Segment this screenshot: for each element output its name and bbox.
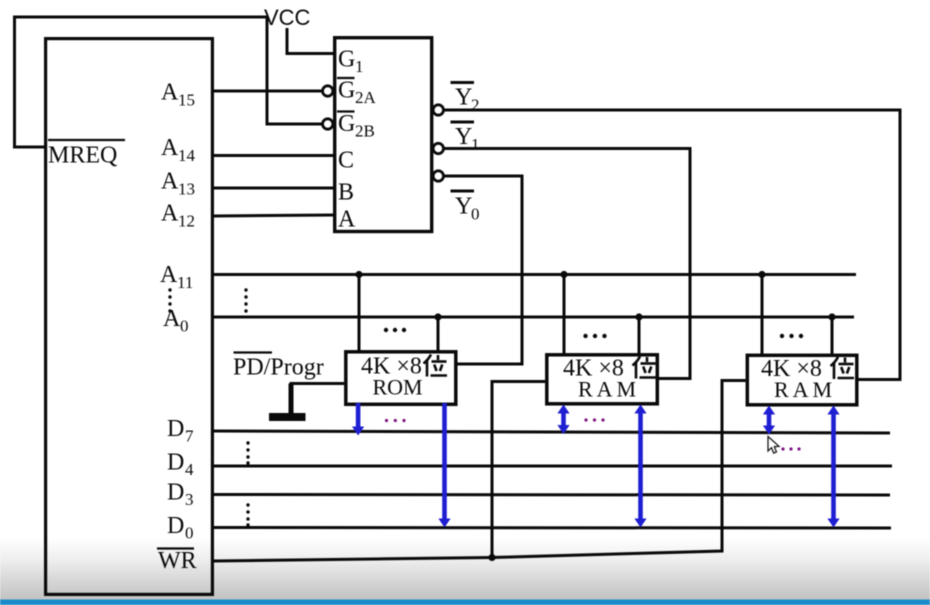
svg-text:1: 1 bbox=[355, 57, 364, 76]
svg-text:A: A bbox=[160, 262, 178, 288]
svg-text:C: C bbox=[338, 148, 354, 174]
svg-text:7: 7 bbox=[185, 427, 194, 446]
svg-text:1: 1 bbox=[471, 135, 480, 154]
svg-text:12: 12 bbox=[178, 212, 195, 231]
svg-text:Y: Y bbox=[455, 124, 472, 150]
svg-text:11: 11 bbox=[177, 273, 193, 292]
svg-text:A: A bbox=[161, 135, 179, 161]
svg-text:3: 3 bbox=[185, 490, 194, 509]
svg-text:Y: Y bbox=[455, 85, 472, 111]
svg-text:A: A bbox=[338, 207, 356, 233]
svg-text:15: 15 bbox=[178, 91, 195, 110]
svg-text:2: 2 bbox=[471, 96, 480, 115]
svg-text:0: 0 bbox=[185, 524, 194, 543]
svg-text:Y: Y bbox=[455, 194, 472, 220]
svg-text:MREQ: MREQ bbox=[48, 143, 117, 169]
svg-text:G: G bbox=[338, 47, 355, 73]
svg-text:RAM: RAM bbox=[578, 377, 640, 402]
svg-text:2A: 2A bbox=[355, 88, 377, 107]
svg-text:ROM: ROM bbox=[373, 375, 423, 400]
svg-text:13: 13 bbox=[178, 180, 195, 199]
svg-text:G: G bbox=[338, 78, 355, 104]
svg-text:B: B bbox=[338, 180, 354, 206]
svg-text:A: A bbox=[161, 169, 179, 195]
svg-text:D: D bbox=[167, 450, 184, 476]
svg-text:A: A bbox=[163, 306, 181, 332]
svg-text:WR: WR bbox=[158, 548, 197, 574]
svg-text:VCC: VCC bbox=[264, 5, 311, 30]
svg-text:A: A bbox=[161, 201, 179, 227]
svg-text:D: D bbox=[167, 513, 184, 539]
svg-text:D: D bbox=[167, 480, 184, 506]
svg-text:0: 0 bbox=[471, 205, 480, 224]
svg-text:0: 0 bbox=[180, 317, 189, 336]
svg-text:RAM: RAM bbox=[774, 377, 836, 402]
svg-text:PD/Progr: PD/Progr bbox=[233, 355, 324, 381]
svg-text:2B: 2B bbox=[355, 122, 375, 141]
svg-text:D: D bbox=[167, 416, 184, 442]
svg-text:G: G bbox=[338, 111, 355, 137]
svg-text:A: A bbox=[161, 80, 179, 106]
svg-text:4: 4 bbox=[185, 460, 194, 479]
svg-text:14: 14 bbox=[178, 146, 196, 165]
